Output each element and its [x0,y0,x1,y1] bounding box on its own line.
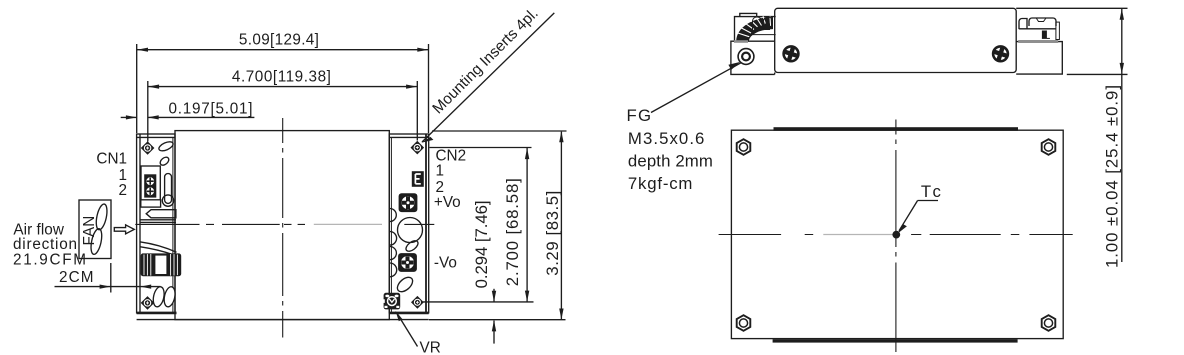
svg-text:7kgf-cm: 7kgf-cm [628,174,693,193]
FG screw [738,49,754,65]
Tc leader [897,201,938,234]
dim 1.00 extension top [1016,7,1127,9]
AC inlet top tab [740,13,757,16]
mounting screw bottom-left [141,296,155,310]
CN1 tab pointed [146,210,176,218]
svg-text:Mounting Inserts 4pl.: Mounting Inserts 4pl. [429,5,541,117]
side view left step bottom to case [774,73,776,75]
face screw left [783,45,800,62]
svg-text:0.294 [7.46]: 0.294 [7.46] [472,200,491,288]
main body top view [175,131,389,320]
connector dark detail [1042,31,1047,39]
svg-text:FAN: FAN [81,216,98,246]
CN2 edge bumps [390,209,397,222]
CN2 fuse box E [412,171,424,187]
svg-text:2.700 [68.58]: 2.700 [68.58] [503,178,522,286]
center line horizontal bottom view [719,234,1073,236]
air flow hollow arrow [114,225,134,234]
dim 5.09 line [137,44,429,133]
connector notch [1036,18,1046,22]
FG leader [651,62,741,113]
dim 4.700 line [148,81,418,142]
dim 1.00 line [1120,9,1124,262]
mounting screw bottom-right [411,296,424,309]
hex nut bottom-left [737,315,751,331]
CN2 +Vo terminal [399,193,418,212]
barrel component [141,253,182,276]
side view main case [775,8,1017,72]
center line gray segment [314,223,382,225]
svg-text:2CM: 2CM [59,269,94,286]
face screw right [992,45,1009,62]
CN1 round hole top right [162,195,173,206]
side view right step [1016,42,1062,75]
CN1 vent slot pill [165,174,172,204]
center line gray segment bottom view [823,234,894,236]
bottom ovals pair [152,286,166,308]
side view left step [731,41,775,74]
mounting screw top-right [411,141,425,155]
step top gray bar [1018,40,1058,43]
center line vertical bottom view [895,120,897,353]
hex nut bottom-right [1042,315,1056,331]
hex nut top-left [737,139,751,155]
CN1 vent oval small [159,156,171,167]
output connector body [1029,18,1056,26]
svg-text:5.09[129.4]: 5.09[129.4] [239,32,319,49]
fan box [79,200,111,259]
left connector strip [137,134,177,313]
sloped wires [140,242,176,255]
svg-text:0.197[5.01]: 0.197[5.01] [169,100,253,117]
dim 0.197 line [121,115,255,119]
center line horizontal (top view) [135,223,305,225]
svg-text:M3.5x0.6: M3.5x0.6 [628,129,705,148]
AC inlet box [735,17,776,42]
dim 0.294 vertical [492,289,496,344]
VR leader [396,311,418,347]
svg-text:VR: VR [420,340,441,355]
svg-text:-Vo: -Vo [434,254,457,271]
center line right segment [404,223,434,225]
svg-text:2: 2 [118,182,127,199]
connector base line [1019,28,1056,30]
output connector small box [1019,19,1027,30]
fan blades [89,203,109,255]
CN1 terminal screw 2 [146,187,155,196]
right connector strip [389,134,428,313]
center line vertical (top view) [282,118,284,338]
hex nut top-right [1042,139,1056,155]
mounting inserts leader [421,13,554,143]
bottom view outline [731,130,1063,338]
dim 2.700 vertical [423,148,534,302]
VR potentiometer [383,293,400,310]
svg-text:Tc: Tc [921,182,941,201]
svg-text:21.9CFM: 21.9CFM [13,251,86,268]
CN1 lower white box [141,200,161,207]
CN1 terminal block outline [141,166,160,204]
svg-text:depth 2mm: depth 2mm [628,151,713,170]
svg-text:3.29 [83.5]: 3.29 [83.5] [543,191,562,276]
strain relief coil [736,16,773,41]
CN1 terminal block body [144,174,156,197]
connector right tab [1056,22,1060,39]
CN2 oval below [395,275,415,295]
svg-text:4.700[119.38]: 4.700[119.38] [232,69,331,86]
Tc point [892,231,900,239]
svg-text:1: 1 [436,163,445,180]
inlet inner parts [753,17,776,35]
svg-text:+Vo: +Vo [434,194,461,211]
bottom edge full width [137,319,429,321]
dim 1.00 extension bottom [1067,73,1128,75]
svg-text:CN1: CN1 [96,151,127,168]
CN2 -Vo terminal [398,253,417,272]
strip cross band lines [140,220,176,223]
dim 2CM [55,263,161,293]
mounting screw top-left [141,141,155,155]
CN1 terminal screw 1 [146,177,155,186]
CN2 oval between [404,239,420,254]
dim 3.29 vertical [429,131,567,320]
svg-text:1.00 ±0.04 [25.4 ±0.9]: 1.00 ±0.04 [25.4 ±0.9] [1102,85,1121,268]
svg-text:FG: FG [627,106,652,125]
CN2 big hole [398,218,423,243]
CN1 vent oval top [158,140,175,153]
bottom gasket band [773,339,1018,342]
top gasket band [774,127,1019,131]
